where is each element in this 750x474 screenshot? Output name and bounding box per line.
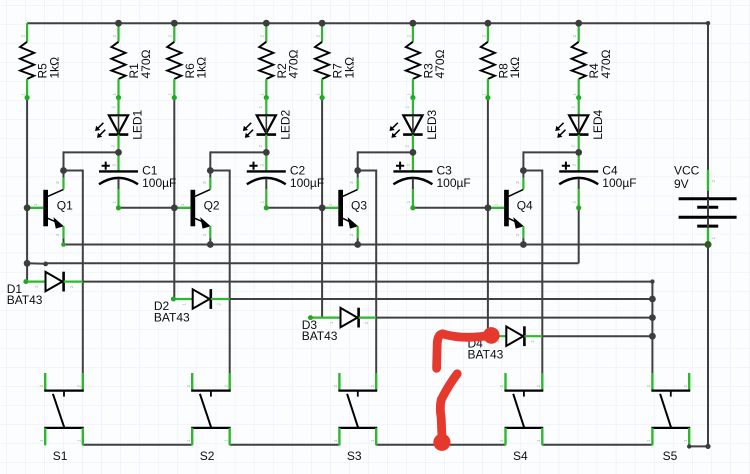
wire D2 cathode rail to bus bbox=[230, 298, 653, 300]
svg-text:2: 2 bbox=[223, 385, 229, 388]
wire Q4 emitter drop bbox=[522, 238, 524, 245]
capacitor C4 100uF bbox=[559, 152, 636, 210]
svg-text:1: 1 bbox=[260, 93, 266, 96]
wire C4 bottom down bbox=[578, 208, 580, 263]
svg-text:LED1: LED1 bbox=[131, 109, 145, 139]
svg-text:Q1: Q1 bbox=[57, 198, 73, 212]
resistor R8 1kohm bbox=[481, 23, 522, 100]
svg-text:2: 2 bbox=[168, 35, 174, 38]
node cathode bus junctions bbox=[650, 279, 654, 283]
wire D4 cathode rail to bus bbox=[542, 335, 652, 337]
svg-text:1: 1 bbox=[328, 203, 334, 206]
svg-text:2: 2 bbox=[405, 145, 411, 148]
svg-text:1: 1 bbox=[333, 439, 339, 442]
svg-text:1: 1 bbox=[180, 203, 186, 206]
wire R5 column down to Q1 base and D1 anode bbox=[26, 98, 28, 282]
svg-text:1: 1 bbox=[34, 285, 40, 288]
svg-text:LED4: LED4 bbox=[591, 109, 605, 139]
svg-text:1: 1 bbox=[223, 439, 229, 442]
capacitor C1 100uF bbox=[99, 152, 176, 210]
svg-text:1: 1 bbox=[39, 439, 45, 442]
svg-text:1: 1 bbox=[112, 93, 118, 96]
wire D1 cathode rail to bus bbox=[83, 281, 653, 283]
wire R8 column down to Q4 base and D4 anode bbox=[487, 98, 489, 337]
resistor R2 470ohm bbox=[259, 23, 300, 100]
node S5 to battery junctions bbox=[687, 444, 691, 448]
svg-text:470Ω: 470Ω bbox=[433, 49, 447, 78]
svg-text:BAT43: BAT43 bbox=[302, 329, 338, 343]
wire LED3 cathode to Q3 collector bbox=[358, 151, 413, 153]
transistor Q4 bbox=[488, 178, 533, 239]
svg-text:1: 1 bbox=[112, 201, 118, 204]
svg-text:470Ω: 470Ω bbox=[139, 49, 153, 78]
red annotation lower stroke bbox=[440, 374, 457, 436]
svg-text:2: 2 bbox=[316, 35, 322, 38]
node Q1 emitter corner bbox=[61, 242, 66, 247]
svg-text:2: 2 bbox=[711, 180, 717, 183]
wire Q3 emitter drop bbox=[357, 238, 359, 245]
svg-text:1: 1 bbox=[572, 93, 578, 96]
svg-text:1: 1 bbox=[499, 439, 505, 442]
wire Q1 emitter drop bbox=[63, 238, 65, 245]
diode D2 BAT43 bbox=[154, 289, 230, 324]
svg-text:LED2: LED2 bbox=[279, 109, 293, 139]
resistor R1 470ohm bbox=[111, 23, 152, 100]
svg-text:100µF: 100µF bbox=[290, 176, 324, 190]
wire battery positive drop bbox=[707, 22, 709, 170]
diode D3 BAT43 bbox=[302, 308, 377, 343]
svg-text:1: 1 bbox=[683, 439, 689, 442]
wire S5 to battery negative bbox=[689, 445, 708, 447]
wire LED1 cathode to Q1 collector bbox=[64, 151, 119, 153]
svg-text:2: 2 bbox=[112, 35, 118, 38]
wire R7 column down to Q3 base and D3 anode bbox=[321, 98, 323, 318]
svg-text:Q3: Q3 bbox=[351, 198, 367, 212]
svg-text:2: 2 bbox=[646, 385, 652, 388]
svg-text:2: 2 bbox=[572, 164, 578, 167]
svg-text:S3: S3 bbox=[347, 449, 362, 463]
svg-text:2: 2 bbox=[481, 35, 487, 38]
wire feedback column stage 2 down to D2 cathode and S2 bbox=[229, 170, 231, 374]
svg-text:1: 1 bbox=[33, 203, 39, 206]
svg-text:1: 1 bbox=[181, 303, 187, 306]
wire C1 bottom to Q2 base bbox=[119, 207, 175, 209]
svg-text:1: 1 bbox=[329, 321, 335, 324]
svg-text:2: 2 bbox=[530, 340, 536, 343]
svg-text:1kΩ: 1kΩ bbox=[47, 57, 61, 79]
svg-text:Q4: Q4 bbox=[517, 198, 533, 212]
svg-text:2: 2 bbox=[333, 385, 339, 388]
svg-text:1: 1 bbox=[259, 201, 265, 204]
node wrap rail junctions bbox=[24, 260, 31, 267]
wire cathode bus down to S5 bbox=[651, 282, 653, 373]
wire bottom rail S3 to S4 bbox=[376, 444, 505, 446]
svg-text:2: 2 bbox=[216, 303, 222, 306]
LED LED4 bbox=[555, 98, 605, 153]
svg-text:S5: S5 bbox=[663, 449, 678, 463]
svg-text:2: 2 bbox=[110, 145, 116, 148]
svg-text:1: 1 bbox=[572, 201, 578, 204]
pushbutton S2 bbox=[186, 373, 231, 463]
svg-text:2: 2 bbox=[536, 385, 542, 388]
svg-text:S4: S4 bbox=[513, 449, 528, 463]
capacitor C3 100uF bbox=[393, 152, 470, 210]
svg-text:1kΩ: 1kΩ bbox=[342, 57, 356, 79]
svg-text:2: 2 bbox=[406, 164, 412, 167]
svg-text:3: 3 bbox=[55, 181, 61, 184]
svg-text:Q2: Q2 bbox=[204, 198, 220, 212]
svg-text:VCC: VCC bbox=[674, 164, 700, 178]
wire feedback column stage 3 down to D3 cathode and S3 bbox=[375, 170, 377, 374]
wire bottom rail S4 to S5 bbox=[542, 444, 652, 446]
node top rail junctions bbox=[115, 20, 122, 27]
svg-text:LED3: LED3 bbox=[425, 109, 439, 139]
svg-text:S1: S1 bbox=[53, 449, 68, 463]
resistor R5 1kohm bbox=[20, 23, 61, 100]
svg-text:2: 2 bbox=[572, 35, 578, 38]
svg-text:2: 2 bbox=[186, 385, 192, 388]
transistor Q2 bbox=[174, 178, 220, 239]
LED LED2 bbox=[243, 98, 293, 153]
node collector tee junctions bbox=[60, 167, 67, 174]
svg-text:BAT43: BAT43 bbox=[468, 348, 504, 362]
red annotation dot on bottom rail bbox=[433, 434, 450, 451]
svg-text:BAT43: BAT43 bbox=[154, 310, 190, 324]
svg-text:1: 1 bbox=[646, 439, 652, 442]
svg-text:100µF: 100µF bbox=[602, 176, 636, 190]
wire feedback column stage 1 down to D1 cathode and S1 bbox=[82, 170, 84, 374]
svg-text:2: 2 bbox=[571, 145, 577, 148]
battery VCC 9V bbox=[674, 164, 737, 245]
node base junctions bbox=[24, 204, 31, 211]
svg-text:470Ω: 470Ω bbox=[599, 49, 613, 78]
wire battery negative down to S5 bbox=[707, 245, 709, 447]
wire wrap-around C4 to Q1 base column bbox=[46, 262, 579, 264]
svg-text:1: 1 bbox=[571, 106, 577, 109]
pushbutton S4 bbox=[499, 373, 543, 463]
pushbutton S3 bbox=[333, 373, 377, 463]
wire feedback column stage 4 down to D4 cathode and S4 bbox=[541, 170, 543, 374]
wire emitter ground rail bbox=[64, 244, 709, 246]
wire C3 bottom to Q4 base bbox=[413, 207, 488, 209]
svg-text:1: 1 bbox=[536, 439, 542, 442]
svg-text:1: 1 bbox=[481, 93, 487, 96]
resistor R3 470ohm bbox=[406, 23, 447, 100]
svg-text:2: 2 bbox=[202, 233, 208, 236]
resistor R4 470ohm bbox=[572, 23, 613, 100]
transistor Q1 bbox=[27, 178, 73, 239]
transistor Q3 bbox=[322, 178, 367, 239]
svg-text:2: 2 bbox=[258, 145, 264, 148]
wire LED4 cathode to Q4 collector bbox=[523, 151, 578, 153]
node LED cathode junctions bbox=[115, 149, 122, 156]
wire collector jog to feedback column stage 2 bbox=[210, 170, 229, 172]
svg-text:1: 1 bbox=[406, 93, 412, 96]
svg-text:1: 1 bbox=[370, 439, 376, 442]
svg-text:S2: S2 bbox=[200, 449, 215, 463]
svg-text:2: 2 bbox=[259, 164, 265, 167]
svg-text:2: 2 bbox=[515, 233, 521, 236]
red annotation dot near D4 anode bbox=[483, 327, 500, 344]
LED LED1 bbox=[95, 98, 145, 153]
pushbutton S1 bbox=[39, 373, 84, 463]
svg-text:2: 2 bbox=[370, 385, 376, 388]
wire C2 bottom to Q3 base bbox=[266, 207, 322, 209]
diode D1 BAT43 bbox=[7, 272, 83, 307]
wire D3 cathode rail to bus bbox=[376, 317, 652, 319]
wire collector jog to feedback column stage 4 bbox=[523, 170, 542, 172]
wire LED2 cathode to Q2 collector bbox=[210, 151, 266, 153]
svg-text:2: 2 bbox=[112, 164, 118, 167]
wire collector jog to feedback column stage 1 bbox=[64, 170, 83, 172]
svg-text:1: 1 bbox=[405, 106, 411, 109]
svg-text:1: 1 bbox=[316, 93, 322, 96]
wire bottom rail S2 to S3 bbox=[230, 444, 340, 446]
svg-text:2: 2 bbox=[76, 385, 82, 388]
resistor R7 1kohm bbox=[315, 23, 356, 100]
red annotation hook stroke bbox=[437, 334, 491, 369]
svg-text:2: 2 bbox=[260, 35, 266, 38]
wire R6 column down to Q2 base and D2 anode bbox=[173, 98, 175, 299]
svg-text:1: 1 bbox=[258, 106, 264, 109]
pushbutton S5 bbox=[646, 373, 690, 463]
svg-text:1: 1 bbox=[168, 93, 174, 96]
svg-text:1: 1 bbox=[186, 439, 192, 442]
svg-text:1: 1 bbox=[76, 439, 82, 442]
svg-text:2: 2 bbox=[39, 385, 45, 388]
svg-text:100µF: 100µF bbox=[437, 176, 471, 190]
svg-text:2: 2 bbox=[21, 35, 27, 38]
svg-text:1: 1 bbox=[406, 201, 412, 204]
svg-text:3: 3 bbox=[202, 181, 208, 184]
node emitter rail junctions bbox=[207, 241, 214, 248]
svg-text:1: 1 bbox=[494, 203, 500, 206]
svg-text:2: 2 bbox=[55, 233, 61, 236]
LED LED3 bbox=[390, 98, 440, 153]
svg-text:3: 3 bbox=[349, 181, 355, 184]
svg-text:2: 2 bbox=[364, 321, 370, 324]
svg-text:3: 3 bbox=[515, 181, 521, 184]
svg-text:1kΩ: 1kΩ bbox=[508, 57, 522, 79]
svg-text:BAT43: BAT43 bbox=[7, 293, 43, 307]
svg-text:1: 1 bbox=[711, 237, 717, 240]
svg-text:2: 2 bbox=[683, 385, 689, 388]
svg-text:2: 2 bbox=[499, 385, 505, 388]
resistor R6 1kohm bbox=[167, 23, 208, 100]
svg-text:1kΩ: 1kΩ bbox=[195, 57, 209, 79]
wire collector jog to feedback column stage 3 bbox=[358, 170, 377, 172]
svg-text:2: 2 bbox=[349, 233, 355, 236]
svg-text:1: 1 bbox=[21, 93, 27, 96]
svg-text:100µF: 100µF bbox=[142, 176, 176, 190]
svg-text:9V: 9V bbox=[674, 177, 689, 191]
wire Q2 emitter drop bbox=[209, 238, 211, 245]
svg-text:470Ω: 470Ω bbox=[287, 49, 301, 78]
svg-text:2: 2 bbox=[69, 285, 75, 288]
diode D4 BAT43 bbox=[468, 326, 543, 361]
wire bottom rail S1 to S2 bbox=[83, 444, 192, 446]
wire top power rail bbox=[27, 22, 708, 24]
capacitor C2 100uF bbox=[247, 152, 324, 210]
node battery negative junction bbox=[705, 241, 712, 248]
svg-text:1: 1 bbox=[110, 106, 116, 109]
svg-text:2: 2 bbox=[406, 35, 412, 38]
